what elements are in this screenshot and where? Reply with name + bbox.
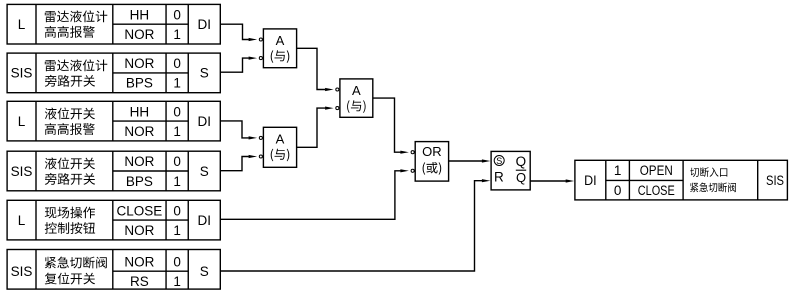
svg-text:S: S xyxy=(200,164,209,179)
svg-text:1: 1 xyxy=(173,223,181,238)
svg-text:NOR: NOR xyxy=(124,223,154,238)
input block B5 field operation control pushbutton xyxy=(7,200,220,240)
wire G1 output -> G2 input 1 xyxy=(297,48,339,91)
output block B7: shutoff-inlet emergency shutoff valve (DI/SIS) xyxy=(575,160,788,200)
description: shutoff inlet / emergency shutoff valve xyxy=(690,167,727,177)
description: 液位开关 / 旁路开关 xyxy=(45,157,95,169)
svg-text:NOR: NOR xyxy=(124,56,154,71)
svg-text:A: A xyxy=(276,132,285,147)
svg-text:1: 1 xyxy=(173,27,181,42)
wire B6.S -> U1 pin R xyxy=(220,179,490,271)
svg-text:0: 0 xyxy=(173,104,181,119)
wire B1.DI -> G1 input 1 xyxy=(220,24,262,41)
svg-text:L: L xyxy=(18,114,26,129)
wire G4 output -> U1 pin S xyxy=(449,159,491,162)
description: 雷达液位计 / 高高报警 xyxy=(45,10,108,22)
svg-text:A: A xyxy=(352,83,361,98)
svg-text:S: S xyxy=(200,264,209,279)
svg-text:L: L xyxy=(18,213,26,228)
svg-text:R: R xyxy=(494,169,504,184)
svg-text:0: 0 xyxy=(614,183,622,198)
svg-text:HH: HH xyxy=(130,7,150,22)
wire B2.S -> G1 input 2 xyxy=(220,57,262,73)
svg-text:RS: RS xyxy=(130,274,149,289)
svg-text:NOR: NOR xyxy=(124,27,154,42)
OR gate G4 xyxy=(415,142,448,182)
svg-text:HH: HH xyxy=(130,104,150,119)
svg-text:SIS: SIS xyxy=(11,66,33,81)
svg-text:1: 1 xyxy=(173,274,181,289)
input block B2 radar level transmitter bypass switch xyxy=(7,53,220,93)
SR flip-flop U1 xyxy=(491,151,530,190)
wire U1 Q-bar output -> B7.DI xyxy=(530,179,574,182)
svg-text:DI: DI xyxy=(198,114,212,129)
wire B4.S -> G3 input 2 xyxy=(220,155,262,171)
svg-text:0: 0 xyxy=(173,7,181,22)
wire B3.DI -> G3 input 1 xyxy=(220,121,262,140)
svg-text:SIS: SIS xyxy=(11,164,33,179)
description: 现场操作 / 控制按钮 xyxy=(45,207,95,219)
svg-text:SIS: SIS xyxy=(11,264,33,279)
svg-text:1: 1 xyxy=(173,76,181,91)
svg-text:BPS: BPS xyxy=(126,174,153,189)
description: 液位开关 / 高高报警 xyxy=(45,108,95,120)
input block B3 level switch high-high alarm xyxy=(7,101,220,141)
svg-text:CLOSE: CLOSE xyxy=(638,183,675,198)
AND gate G1 xyxy=(263,29,296,68)
svg-text:Q: Q xyxy=(516,170,526,185)
svg-text:DI: DI xyxy=(584,173,597,188)
svg-text:NOR: NOR xyxy=(124,124,154,139)
svg-text:0: 0 xyxy=(173,203,181,218)
svg-text:DI: DI xyxy=(198,213,212,228)
svg-text:NOR: NOR xyxy=(124,255,154,270)
svg-text:DI: DI xyxy=(198,17,212,32)
svg-text:S: S xyxy=(496,156,502,166)
svg-text:0: 0 xyxy=(173,154,181,169)
wire G2 output -> G4 input 1 xyxy=(373,98,414,154)
svg-text:SIS: SIS xyxy=(766,173,784,188)
svg-text:L: L xyxy=(18,17,26,32)
input block B6 emergency shutoff valve reset switch xyxy=(7,250,220,290)
svg-text:OPEN: OPEN xyxy=(640,163,673,178)
description: 紧急切断阀 / 复位开关 xyxy=(45,257,107,269)
svg-text:1: 1 xyxy=(614,163,622,178)
svg-text:A: A xyxy=(276,33,285,48)
svg-text:BPS: BPS xyxy=(126,76,153,91)
wire B5.DI -> G4 input 2 xyxy=(220,169,414,219)
pin S (set, circled) xyxy=(494,156,504,166)
svg-text:0: 0 xyxy=(173,56,181,71)
svg-text:CLOSE: CLOSE xyxy=(117,203,163,218)
svg-text:NOR: NOR xyxy=(124,154,154,169)
svg-text:1: 1 xyxy=(173,174,181,189)
svg-text:1: 1 xyxy=(173,124,181,139)
wire G3 output -> G2 input 2 xyxy=(297,107,339,148)
svg-text:S: S xyxy=(200,66,209,81)
description: 雷达液位计 / 旁路开关 xyxy=(45,59,108,71)
svg-text:Q: Q xyxy=(516,154,527,169)
svg-text:OR: OR xyxy=(422,144,442,159)
svg-text:0: 0 xyxy=(173,255,181,270)
AND gate G3 xyxy=(263,127,296,167)
input block B1 radar level transmitter high-high alarm xyxy=(7,4,220,44)
AND gate G2 xyxy=(340,79,373,117)
input block B4 level switch bypass switch xyxy=(7,151,220,191)
